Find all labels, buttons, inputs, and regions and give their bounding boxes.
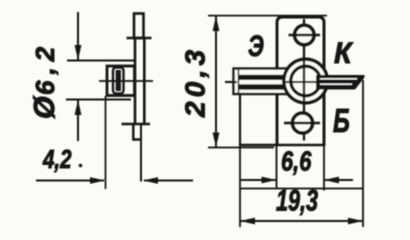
svg-text:Э: Э <box>248 29 264 63</box>
flange plate bottom edge <box>240 144 324 147</box>
emitter lead end cap <box>238 70 240 94</box>
flange plate right edge (side view) <box>143 38 146 124</box>
collector lead К (pointed tab) <box>316 75 365 90</box>
arrowhead right (19,3) <box>348 218 363 225</box>
bottom crossbar <box>122 123 151 126</box>
arrowhead down (Ø6,2 top) <box>75 45 82 61</box>
flange plate left edge (side view) <box>134 38 137 124</box>
arrowhead up (Ø6,2 bottom) <box>75 100 82 116</box>
horizontal center line of can <box>285 81 331 83</box>
center line of can axis <box>99 80 153 82</box>
extension line 4,2 left <box>105 96 107 189</box>
emitter lead end-on <box>113 68 124 94</box>
dimension line 4,2 left segment <box>36 180 104 182</box>
svg-text:19,3: 19,3 <box>276 183 318 217</box>
svg-text:20,3: 20,3 <box>180 46 211 118</box>
extension line 6,6 left <box>276 146 278 189</box>
top tab of flange (side view) <box>134 14 144 39</box>
svg-text:6,6: 6,6 <box>281 146 312 177</box>
dimension line Ø6,2 vertical <box>77 12 79 60</box>
emitter lead Э (hatched ribbon) <box>234 69 296 95</box>
svg-text:4,2: 4,2 <box>42 145 71 174</box>
extension line from collector tip <box>362 80 364 227</box>
svg-text:Б: Б <box>333 103 350 140</box>
bottom mounting hole <box>293 113 313 133</box>
top mounting hole <box>295 25 314 44</box>
dimension line 19,3 <box>240 220 363 222</box>
can inner circle <box>291 66 321 96</box>
arrowhead right (4,2) <box>90 177 105 184</box>
flange strip outline (front view) <box>277 17 324 146</box>
extension line bottom (Ø6,2) <box>66 99 131 101</box>
bottom hole horizontal tick <box>284 122 320 125</box>
emitter lead hatch stripe 2 <box>238 84 285 89</box>
svg-text:Ø: Ø <box>29 95 61 119</box>
svg-text:6,2: 6,2 <box>30 41 60 95</box>
dimension line 20,3 <box>215 16 217 148</box>
dimension line 6,6 right tail <box>325 179 354 181</box>
arrowhead left (4,2) <box>143 177 158 184</box>
arrowhead left (19,3) <box>240 218 255 225</box>
can outer circle <box>284 59 328 103</box>
dimension line 6,6 left tail <box>241 179 276 181</box>
emitter lead hatch <box>116 70 121 91</box>
arrowhead up (20,3) <box>213 16 220 31</box>
base pin (side view) <box>133 124 141 140</box>
extension line top (Ø6,2) <box>67 60 135 62</box>
extension line 19,3 left <box>239 146 241 227</box>
base pin / extension edge going down <box>140 124 142 182</box>
extension line 20,3 bottom <box>208 147 274 149</box>
collector lead white hatch line 1 <box>320 78 357 80</box>
svg-text:К: К <box>334 37 353 70</box>
can body (side view) <box>107 66 135 96</box>
extension line 20,3 top <box>208 15 327 17</box>
arrowhead down (20,3) <box>213 133 220 148</box>
top shoulder crossbar <box>127 37 152 40</box>
extension line 6,6 right <box>323 146 325 191</box>
arrowhead right (6,6) <box>262 177 277 184</box>
dimension line 4,2 right segment <box>144 180 193 182</box>
collector lead white hatch line 2 <box>320 83 352 85</box>
top hole horizontal tick <box>289 34 321 37</box>
vertical center line of strip <box>303 19 305 141</box>
arrowhead left (6,6) <box>324 177 339 184</box>
emitter lead hatch stripe 1 <box>238 75 285 80</box>
lower horizontal line <box>240 188 363 190</box>
horizontal center line of can (left tail) <box>225 81 237 83</box>
flange plate left edge <box>239 93 241 146</box>
